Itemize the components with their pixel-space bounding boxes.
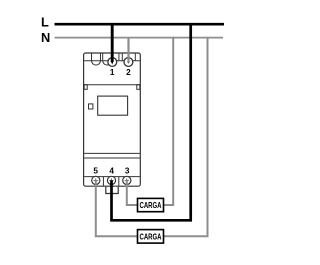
svg-text:CARGA: CARGA <box>140 200 162 210</box>
wire L drop into terminal 1 <box>111 23 114 62</box>
svg-text:CARGA: CARGA <box>140 231 162 241</box>
load box CARGA 1 <box>138 198 164 211</box>
terminal 5 screw mark <box>94 178 98 182</box>
svg-text:N: N <box>41 30 50 45</box>
terminal 4 <box>107 176 115 184</box>
wire neutral branch C to CARGA 2 <box>163 37 207 237</box>
faceplate right tab <box>137 85 140 90</box>
bottom strip line <box>84 176 140 178</box>
svg-text:4: 4 <box>109 166 114 175</box>
terminal 4 screw mark <box>109 178 113 182</box>
wire terminal 5 to CARGA 2 <box>96 180 138 236</box>
wire L line horizontal <box>55 23 225 26</box>
wire terminal 3 to CARGA 1 <box>127 180 138 205</box>
svg-text:2: 2 <box>126 68 131 77</box>
faceplate top line <box>84 84 140 86</box>
load box CARGA 2 <box>138 230 164 244</box>
terminal 3 <box>123 176 131 184</box>
wire neutral branch A to CARGA 1 <box>163 37 173 205</box>
timer body outline <box>84 53 141 186</box>
timer top cutout arch 2 <box>103 53 112 65</box>
svg-text:1: 1 <box>110 68 115 77</box>
timer top divider stubs <box>119 53 135 60</box>
terminal 3 screw mark <box>125 178 129 182</box>
terminal 2 screw mark <box>127 61 130 64</box>
svg-text:L: L <box>41 14 49 29</box>
timer top cutout arch 1 <box>92 53 101 65</box>
wire N line horizontal <box>55 37 224 39</box>
DIN rail clip <box>106 187 118 194</box>
terminal 2 <box>124 58 133 67</box>
svg-text:5: 5 <box>93 166 98 175</box>
wire neutral drop to terminal 2 <box>127 37 129 62</box>
wire tip terminal 1 <box>111 61 114 64</box>
wire terminal 4 loop to L <box>112 23 191 220</box>
faceplate bottom line <box>84 152 140 154</box>
timer top strip line <box>84 60 140 62</box>
faceplate left tab <box>84 85 87 90</box>
bottom block top line <box>84 157 140 159</box>
svg-text:3: 3 <box>125 166 130 175</box>
LCD display <box>98 96 128 115</box>
terminal 1 <box>108 58 117 67</box>
button square <box>89 104 93 109</box>
terminal 5 <box>92 176 100 184</box>
bottom divider stubs <box>103 177 118 186</box>
